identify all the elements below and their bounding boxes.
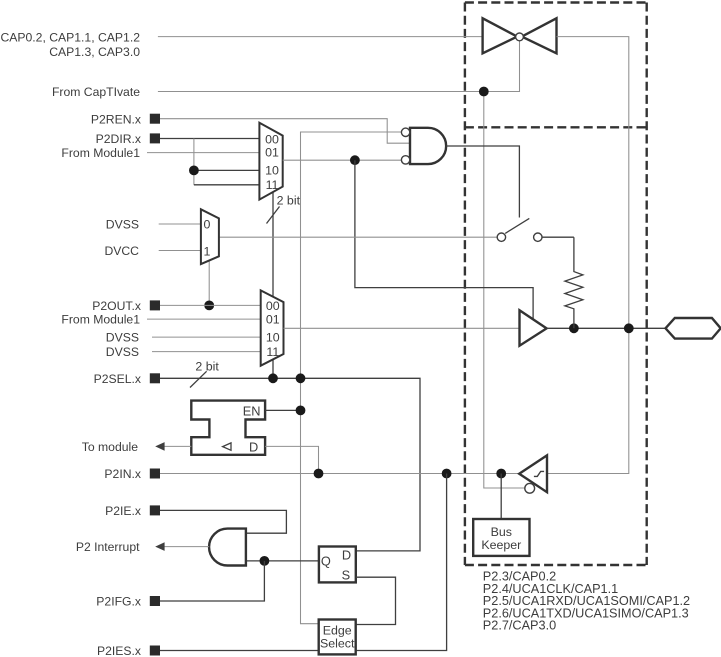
node mux1 output branch (350, 155, 360, 165)
node bus keeper junction (496, 469, 506, 479)
mux P2OUT output select (261, 290, 284, 365)
svg-text:CAP1.3, CAP3.0: CAP1.3, CAP3.0 (49, 45, 140, 59)
svg-text:From CapTIvate: From CapTIvate (52, 85, 140, 99)
svg-text:DVSS: DVSS (106, 218, 139, 232)
svg-text:0: 0 (203, 217, 210, 231)
label CAP0.2, CAP1.1, CAP1.2 / CAP1.3, CAP3.0 (0, 31, 140, 59)
node P2SEL branch (296, 373, 306, 383)
svg-text:DVSS: DVSS (106, 331, 139, 345)
label P2IE.x (105, 504, 160, 518)
wire P2DIR.x to mux input 00 (160, 138, 259, 140)
wire P2SEL vertical branch to AND gate (301, 132, 402, 624)
dashed module boundary box (465, 3, 647, 566)
output driver buffer (520, 310, 547, 346)
svg-text:11: 11 (266, 178, 279, 192)
wire P2DIR branch vertical (193, 139, 195, 185)
input latch EN/D (191, 401, 265, 455)
wire From Module1 to mux input 01 (147, 152, 259, 154)
node P2DIR branch junction (189, 166, 199, 176)
node resistor junction (569, 323, 579, 333)
svg-text:Q: Q (321, 554, 331, 569)
resistor R1 pull-up/down (565, 237, 583, 328)
label P2OUT.x (92, 299, 160, 313)
node interrupt flag junction (260, 556, 270, 566)
wire P2IE.x to interrupt AND gate (160, 510, 286, 533)
wire P2IFG.x up to flag line (160, 561, 264, 601)
mux P2DIR direction select (259, 123, 282, 200)
flip-flop interrupt flag (319, 547, 356, 583)
wire latch D input from P2IN line (265, 446, 318, 473)
svg-text:2 bit: 2 bit (195, 359, 219, 373)
label P2REN.x (91, 112, 160, 126)
svg-text:Select: Select (320, 637, 355, 651)
svg-text:01: 01 (266, 313, 280, 327)
svg-text:S: S (342, 568, 351, 583)
svg-text:00: 00 (266, 299, 280, 313)
transmission gate control bubble (516, 33, 524, 41)
node mux2 select junction (204, 301, 214, 311)
svg-text:11: 11 (266, 345, 279, 359)
svg-text:1: 1 (203, 244, 210, 258)
node mux selects at P2SEL (268, 373, 278, 383)
svg-text:2 bit: 2 bit (277, 193, 301, 207)
wire flag S from edge select (356, 577, 396, 624)
node edge-select feed junction (442, 469, 452, 479)
svg-text:10: 10 (265, 164, 279, 178)
wire P2SEL.x (160, 378, 420, 551)
svg-text:To module: To module (82, 440, 138, 454)
wire CapTIvate branch down to input buffer enable (484, 92, 527, 489)
wire flag Q to interrupt AND gate (246, 560, 319, 562)
wire AND output to resistor switch (446, 146, 519, 218)
svg-text:P2IN.x: P2IN.x (104, 467, 141, 481)
transistor-style mirrored AND gate (interrupt) (209, 529, 246, 566)
wire mux2 select to P2OUT line (208, 261, 210, 306)
svg-text:P2SEL.x: P2SEL.x (94, 372, 141, 386)
svg-text:P2.7/CAP3.0: P2.7/CAP3.0 (483, 619, 556, 633)
wire latch EN to P2SEL branch (265, 409, 300, 411)
wire mux input 10 (194, 169, 260, 171)
wire DVCC to mux2 input 1 (159, 250, 201, 252)
mux pull-up/pull-down select (201, 209, 219, 264)
wire P2IES.x and pin feed to edge select (160, 474, 447, 651)
wire From CapTIvate (158, 41, 520, 92)
wire mux3 output to driver input (284, 327, 520, 329)
transmission gate (analog switch) (483, 18, 557, 53)
label P2SEL.x (94, 372, 160, 386)
switch REN enable (497, 218, 574, 241)
wire mux1 output to AND gate (283, 159, 402, 161)
wire To module arrow (155, 442, 191, 451)
wire CAP input to transmission gate (158, 36, 483, 38)
wire mux1 select down to P2SEL (272, 192, 274, 378)
svg-text:From Module1: From Module1 (61, 146, 140, 160)
svg-text:P2REN.x: P2REN.x (91, 112, 141, 126)
label P2DIR.x (96, 132, 160, 146)
label 2 bit (direction select) (267, 193, 301, 223)
wire mux2 output to switch (219, 236, 497, 238)
label P2IN.x (104, 467, 160, 481)
svg-text:01: 01 (265, 146, 279, 160)
input Schmitt trigger buffer (519, 455, 547, 493)
wire P2OUT.x to mux3 input 00 (160, 304, 261, 306)
wire P2IN.x from input buffer (160, 473, 518, 475)
svg-text:EN: EN (243, 404, 261, 419)
svg-text:P2IES.x: P2IES.x (97, 644, 141, 657)
wire DVSS to mux3 input 10 (152, 336, 261, 338)
wire direction signal down to output driver enable (355, 160, 533, 319)
svg-text:P2IE.x: P2IE.x (105, 504, 141, 518)
wire From Module1 to mux3 input 01 (147, 318, 261, 320)
label P2IFG.x (96, 595, 160, 609)
wire mux input 11 (194, 184, 260, 186)
node CapTIvate junction (479, 87, 489, 97)
svg-text:CAP0.2, CAP1.1, CAP1.2: CAP0.2, CAP1.1, CAP1.2 (0, 31, 140, 45)
node pad line junction (624, 323, 634, 333)
wire P2 Interrupt arrow (155, 542, 209, 551)
svg-text:P2DIR.x: P2DIR.x (96, 132, 141, 146)
svg-text:Bus: Bus (491, 525, 512, 539)
svg-text:From Module1: From Module1 (61, 313, 140, 327)
label 2 bit (output select) (190, 359, 219, 387)
node EN junction (296, 406, 306, 416)
pad hexagon P2.x pin (666, 318, 721, 339)
svg-text:P2IFG.x: P2IFG.x (96, 595, 141, 609)
wire P2REN.x to AND gate (160, 119, 410, 144)
svg-text:P2OUT.x: P2OUT.x (92, 299, 141, 313)
svg-text:D: D (249, 440, 258, 455)
op-amp AND gate U1 (REN logic) (401, 128, 446, 164)
svg-text:DVSS: DVSS (106, 345, 139, 359)
svg-text:10: 10 (266, 331, 280, 345)
wire transmission gate output (547, 37, 629, 474)
label pin functions (483, 570, 690, 633)
svg-text:D: D (342, 548, 351, 563)
wire driver output to pad (547, 327, 666, 329)
wire bus keeper connection (500, 474, 502, 520)
wire DVSS to mux2 input 0 (159, 223, 201, 225)
box Bus Keeper (473, 519, 529, 556)
svg-text:00: 00 (265, 132, 279, 146)
label P2IES.x (97, 644, 160, 657)
box Edge Select (319, 620, 356, 655)
wire DVSS to mux3 input 11 (152, 351, 261, 353)
svg-text:Edge: Edge (323, 623, 352, 637)
svg-text:P2 Interrupt: P2 Interrupt (76, 540, 140, 554)
node latch D junction (314, 469, 324, 479)
svg-text:DVCC: DVCC (104, 244, 139, 258)
svg-text:Keeper: Keeper (481, 538, 521, 552)
